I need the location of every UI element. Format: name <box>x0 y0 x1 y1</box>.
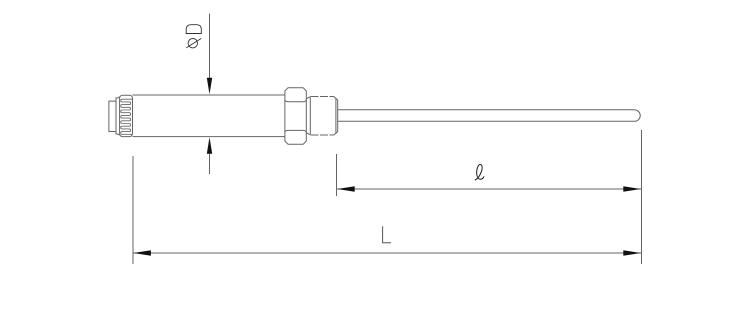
threaded fitting <box>307 97 338 136</box>
probe rod <box>338 110 641 122</box>
connector lip ring <box>116 97 120 135</box>
label L <box>383 226 391 242</box>
label l script <box>475 164 484 180</box>
extension line for dim L left <box>132 156 134 264</box>
extension line right shared <box>641 130 643 264</box>
label phi-D <box>186 25 202 48</box>
dimension D bottom arrow <box>207 137 212 174</box>
knurl slots <box>121 99 132 134</box>
connector end cap <box>109 101 116 131</box>
dimension D top arrow <box>207 14 212 95</box>
dimension L line <box>133 250 641 256</box>
knurled ring <box>120 95 133 136</box>
dimension l line <box>337 186 641 192</box>
hex nut <box>285 88 306 145</box>
extension line for dim l left <box>336 154 338 196</box>
cylindrical body <box>133 95 285 137</box>
